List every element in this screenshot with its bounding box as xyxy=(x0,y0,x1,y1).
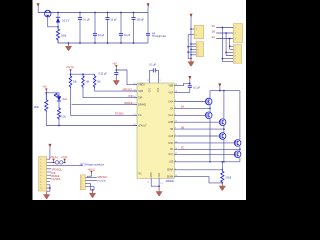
svg-text:1: 1 xyxy=(196,29,197,31)
op-amp U1 motor driver IC body xyxy=(137,83,174,178)
svg-text:2: 2 xyxy=(40,162,41,164)
svg-text:1M: 1M xyxy=(97,81,100,84)
wire J5 pin8 stub xyxy=(47,181,50,183)
ground VREG cap xyxy=(113,77,120,85)
wire VBB pin to flag xyxy=(178,83,190,85)
left black matte bar xyxy=(0,0,33,200)
svg-text:24: 24 xyxy=(133,96,135,98)
svg-text:0.22 µF: 0.22 µF xyxy=(99,73,108,76)
svg-text:JST SH-type connector: JST SH-type connector xyxy=(79,163,104,166)
wire SENN to sense resistor bottom xyxy=(178,177,223,183)
svg-text:+3.3V: +3.3V xyxy=(61,156,68,159)
power flag VIN right of cap bank xyxy=(147,3,150,6)
wire J5 pin2 to jumper pads xyxy=(47,161,65,163)
pin BRAKE stub xyxy=(134,104,137,106)
transistor Q4 phase B high xyxy=(219,119,226,126)
svg-text:5: 5 xyxy=(235,59,236,61)
svg-text:8: 8 xyxy=(175,160,176,162)
connector J6 JST 4-pin xyxy=(80,175,85,190)
svg-text:SA: SA xyxy=(212,36,216,39)
wire BRAKE net xyxy=(72,104,137,106)
svg-text:SPD/SCL: SPD/SCL xyxy=(97,176,108,179)
svg-text:FG/SDA: FG/SDA xyxy=(51,178,60,181)
pin FG stub xyxy=(134,114,137,116)
ground IC xyxy=(156,188,163,196)
pin LSS stub xyxy=(174,161,177,163)
wire J3 pin2 xyxy=(188,35,194,59)
transistor Q1 reverse-protection MOSFET xyxy=(44,10,51,17)
resistor R5 100k (LED parallel) xyxy=(45,93,48,112)
pin SENP stub xyxy=(174,169,177,171)
wire J6 power to pin1 xyxy=(85,173,91,178)
svg-text:2: 2 xyxy=(160,80,161,82)
svg-text:100 µF: 100 µF xyxy=(137,18,145,21)
wire R6 to fault rail xyxy=(58,120,60,126)
svg-text:2: 2 xyxy=(81,180,82,182)
wire rail to Q2 drain xyxy=(209,91,211,109)
ground left group xyxy=(190,58,192,60)
wire SA to J1 pin3 xyxy=(216,38,233,40)
wire J6 pin3 to ground xyxy=(85,184,94,190)
transistor Q6 phase C high xyxy=(234,140,241,147)
wire J5 pin4 SPD/SCL xyxy=(47,168,51,170)
svg-text:2.2k: 2.2k xyxy=(61,115,66,118)
svg-text:12: 12 xyxy=(175,153,177,155)
svg-text:6: 6 xyxy=(235,62,236,64)
transistor Q2 phase A high xyxy=(205,98,212,105)
wire GLC to Q7 gate xyxy=(178,153,236,155)
svg-text:SENN: SENN xyxy=(167,177,174,179)
svg-text:7: 7 xyxy=(175,135,176,137)
wire SA riser to J2 pins 1-2 xyxy=(230,39,234,50)
svg-text:4: 4 xyxy=(40,169,41,171)
SECTION PLACEHOLDERS xyxy=(37,3,167,51)
svg-text:3: 3 xyxy=(40,166,41,168)
svg-text:16: 16 xyxy=(175,84,177,86)
wire SB phase B node xyxy=(178,128,224,130)
pin SC stub xyxy=(174,148,177,150)
svg-text:GLC: GLC xyxy=(168,154,173,156)
svg-text:GND: GND xyxy=(151,172,153,177)
svg-text:5: 5 xyxy=(197,55,198,57)
pin DIR stub xyxy=(134,97,137,99)
wire SA phase A node xyxy=(178,107,210,109)
wire GHB to Q4 gate xyxy=(178,121,220,123)
resistor R2 10k pullup xyxy=(69,74,72,88)
svg-text:14: 14 xyxy=(175,141,177,143)
wire GHA to Q2 gate xyxy=(178,101,206,103)
wire J3 pin1 xyxy=(191,28,194,30)
wire rail to Q4 drain xyxy=(223,91,225,130)
svg-text:FG/SDA: FG/SDA xyxy=(115,113,124,116)
pin GHC stub xyxy=(174,142,177,144)
svg-text:FG: FG xyxy=(138,115,141,117)
svg-text:1M: 1M xyxy=(86,81,89,84)
svg-text:15: 15 xyxy=(133,83,135,85)
svg-text:10: 10 xyxy=(40,188,42,190)
pin GND bottom stub xyxy=(151,178,159,186)
connector J4 aux 5-pin xyxy=(196,42,203,57)
svg-text:4: 4 xyxy=(175,114,176,116)
wire VIN flag to FET xyxy=(38,7,44,13)
svg-text:CP1: CP1 xyxy=(149,87,151,92)
svg-text:SB: SB xyxy=(170,129,174,131)
connector J5 logic 10-pin xyxy=(39,157,47,192)
svg-text:25: 25 xyxy=(133,90,135,92)
svg-text:2: 2 xyxy=(196,35,197,37)
wire J5 pins 9-10 to ground xyxy=(47,185,50,191)
svg-text:3: 3 xyxy=(235,52,236,54)
ground sense resistor xyxy=(219,183,226,191)
power flag VIN top-left xyxy=(37,3,40,6)
node zener/gate junction xyxy=(57,26,59,28)
power flag +5V VREG xyxy=(112,62,117,67)
wire GLA to Q3 gate xyxy=(178,114,206,116)
svg-text:DIR: DIR xyxy=(138,98,142,100)
wire DIR net xyxy=(83,88,137,98)
power flag +5V J6 xyxy=(87,168,95,173)
right black matte bar xyxy=(246,0,280,200)
wire SC phase C node xyxy=(178,148,240,150)
svg-text:GHB: GHB xyxy=(168,122,173,124)
power flag VIN at VBB xyxy=(188,76,191,79)
svg-text:SB: SB xyxy=(212,31,216,34)
svg-text:PAD: PAD xyxy=(158,173,161,178)
wire VREG node xyxy=(116,67,137,85)
svg-text:3: 3 xyxy=(81,183,82,185)
wire J6 pin2 SPD/SCL xyxy=(85,180,97,182)
capacitor C4 10 uF xyxy=(119,13,123,44)
svg-text:6: 6 xyxy=(40,175,41,177)
wire SENP to sense resistor xyxy=(178,169,223,171)
svg-text:1: 1 xyxy=(175,168,176,170)
pin SA stub xyxy=(174,107,177,109)
wire phase A node to Q3 drain and source down xyxy=(209,108,211,161)
svg-text:SA: SA xyxy=(170,107,174,110)
resistor R4 1M pullup xyxy=(93,74,96,88)
svg-text:BRAKE: BRAKE xyxy=(138,104,146,107)
svg-text:SENP: SENP xyxy=(167,170,174,172)
svg-text:11: 11 xyxy=(147,182,149,184)
svg-text:SPD: SPD xyxy=(138,91,143,93)
capacitor C7 0.22 uF xyxy=(114,70,118,78)
svg-text:23: 23 xyxy=(160,183,162,185)
svg-text:VBB: VBB xyxy=(169,86,174,88)
capacitor C2 10 uF xyxy=(93,13,97,44)
svg-text:1: 1 xyxy=(235,46,236,48)
svg-text:BRAKE: BRAKE xyxy=(124,102,133,105)
svg-text:NC: NC xyxy=(138,174,142,176)
svg-text:VCP: VCP xyxy=(168,92,173,94)
svg-text:GHC: GHC xyxy=(168,143,173,145)
svg-text:FG/SDA: FG/SDA xyxy=(97,179,106,182)
svg-text:+5V (L): +5V (L) xyxy=(50,156,58,159)
svg-text:5: 5 xyxy=(40,172,41,174)
svg-text:Through hole: Through hole xyxy=(152,35,167,38)
pin GHA stub xyxy=(174,101,177,103)
wire GHC to Q6 gate xyxy=(178,142,236,144)
svg-text:1: 1 xyxy=(197,44,198,46)
node jumper pad A xyxy=(55,161,59,165)
svg-text:16.2 V: 16.2 V xyxy=(62,19,69,22)
svg-text:100k: 100k xyxy=(34,106,40,109)
svg-text:1: 1 xyxy=(40,159,41,161)
svg-text:21: 21 xyxy=(133,114,135,116)
wire J6 pin1 label row xyxy=(88,176,97,178)
svg-text:LSS: LSS xyxy=(169,162,174,164)
connector J1 motor 3-pin xyxy=(233,24,242,43)
svg-text:18: 18 xyxy=(175,91,177,93)
svg-text:0.1 µF: 0.1 µF xyxy=(193,86,200,89)
svg-text:2: 2 xyxy=(235,33,236,35)
wire bottom rail xyxy=(58,42,148,44)
pin CP1 top stub xyxy=(150,70,153,83)
LED D2 red xyxy=(54,94,61,102)
svg-text:7: 7 xyxy=(40,178,41,180)
svg-text:xFAULT: xFAULT xyxy=(138,124,147,127)
power flag VIN J5 xyxy=(48,144,51,147)
wire LSS rail xyxy=(178,161,240,163)
power flag +5V LED xyxy=(42,86,47,91)
svg-text:10k: 10k xyxy=(73,81,78,84)
capacitor C8 0.1 uF charge pump xyxy=(153,68,155,72)
svg-text:4: 4 xyxy=(197,52,198,54)
svg-text:17: 17 xyxy=(147,80,149,82)
svg-text:19: 19 xyxy=(133,103,135,105)
capacitor C9 0.1 uF VBB-VCP xyxy=(189,83,191,92)
pin VCP stub xyxy=(174,91,177,93)
svg-text:A89306: A89306 xyxy=(166,180,175,183)
svg-text:0.005: 0.005 xyxy=(225,176,232,179)
wire J6 pin4 to ground xyxy=(85,187,94,190)
svg-text:GHA: GHA xyxy=(168,100,173,103)
pin xFAULT stub xyxy=(134,125,137,127)
zener diode D1 16.2V xyxy=(56,13,60,27)
power flag VIN bridge xyxy=(218,83,221,86)
svg-text:VREG: VREG xyxy=(138,85,145,87)
ground J6 xyxy=(89,190,96,198)
wire J5 pin5 DIR xyxy=(47,171,51,173)
svg-text:+5V: +5V xyxy=(112,62,117,65)
wire SB to J1 pin2 xyxy=(216,32,233,34)
svg-text:3: 3 xyxy=(197,49,198,51)
svg-text:13: 13 xyxy=(175,148,177,150)
transistor Q3 phase A low xyxy=(205,112,212,119)
wire phase C node to Q7 and source down xyxy=(239,149,241,162)
wire rail to Q6 drain xyxy=(239,91,241,150)
svg-text:10 µF: 10 µF xyxy=(124,34,131,37)
svg-text:4: 4 xyxy=(81,187,82,189)
pin SENN stub xyxy=(174,176,177,178)
capacitor C5 100 uF xyxy=(131,13,135,44)
wire SC riser to J2 pins 5-6 xyxy=(222,28,233,62)
svg-text:SC: SC xyxy=(212,25,216,28)
svg-text:10: 10 xyxy=(175,121,177,123)
ground main rail xyxy=(65,43,72,51)
svg-text:Red: Red xyxy=(63,98,68,101)
pin SPD stub xyxy=(134,90,137,92)
svg-text:2: 2 xyxy=(197,47,198,49)
wire below R5 xyxy=(46,112,137,126)
svg-text:CP2: CP2 xyxy=(158,87,160,92)
svg-text:22: 22 xyxy=(133,124,135,126)
wire GLB to Q5 gate xyxy=(178,135,220,137)
pin GLC stub xyxy=(174,153,177,155)
svg-text:GLA: GLA xyxy=(169,114,174,117)
svg-text:DIR: DIR xyxy=(128,95,132,98)
wire SC to J1 pin1 xyxy=(216,27,233,29)
svg-text:0.1 µF: 0.1 µF xyxy=(83,18,90,21)
svg-text:8: 8 xyxy=(40,182,41,184)
wire top rail VIN xyxy=(51,12,148,14)
svg-text:1: 1 xyxy=(235,27,236,29)
pin GLB stub xyxy=(174,135,177,137)
pin VREG stub xyxy=(134,84,137,86)
wire J5 pin7 FG/SDA xyxy=(47,177,51,179)
svg-text:9: 9 xyxy=(175,128,176,130)
connector J2 sense 6-pin xyxy=(233,45,241,64)
svg-text:4: 4 xyxy=(235,56,236,58)
svg-text:+5V (L): +5V (L) xyxy=(66,66,74,69)
power flag +5V pullup rail xyxy=(66,66,74,72)
node jumper pad B xyxy=(59,161,63,165)
connector J3 power 2-pin xyxy=(194,25,203,39)
transistor Q5 phase B low xyxy=(219,133,226,140)
svg-text:0.1 µF: 0.1 µF xyxy=(149,64,156,67)
capacitor C6 NF through hole xyxy=(146,7,150,44)
wire VCP pin to cap xyxy=(178,91,190,93)
wire Q1 gate down to zener node xyxy=(48,17,58,27)
svg-text:6: 6 xyxy=(175,100,176,102)
svg-text:2: 2 xyxy=(235,49,236,51)
svg-text:24: 24 xyxy=(175,175,177,177)
wire FG/SDA net xyxy=(71,88,138,115)
capacitor C3 10 uF xyxy=(105,13,109,44)
pin VBB stub xyxy=(174,85,177,87)
resistor R1 100k xyxy=(56,27,59,43)
power flag VIN left group xyxy=(190,14,193,17)
pin GLA stub xyxy=(174,114,177,116)
wire SPD/SCL net xyxy=(95,88,137,91)
resistor R3 1M pullup xyxy=(82,74,85,88)
resistor R7 sense 0.005 xyxy=(221,162,223,171)
svg-text:SC: SC xyxy=(170,149,174,151)
svg-text:1: 1 xyxy=(81,177,82,179)
transistor Q7 phase C low xyxy=(234,151,241,158)
wire LED to R6 xyxy=(58,101,60,107)
wire J5 pin3 +5V logic out xyxy=(47,165,83,167)
pin GHB stub xyxy=(174,121,177,123)
svg-text:100k: 100k xyxy=(61,34,67,37)
wire SB riser to J2 pins 3-4 xyxy=(226,33,233,56)
pin CP2 top stub xyxy=(156,70,159,83)
wire bridge VBB top rail xyxy=(210,90,240,92)
ground J5 xyxy=(43,191,50,199)
wire 5V pullup rail xyxy=(71,71,95,74)
svg-text:10 µF: 10 µF xyxy=(98,34,105,37)
svg-text:5: 5 xyxy=(175,107,176,109)
capacitor C1 0.1 uF xyxy=(78,13,82,44)
pin SB stub xyxy=(174,128,177,130)
svg-text:GLB: GLB xyxy=(169,136,174,138)
svg-text:10 µF: 10 µF xyxy=(111,18,118,21)
wire J5 pin1 to power xyxy=(47,147,50,159)
svg-text:+5V: +5V xyxy=(42,86,47,89)
svg-text:9: 9 xyxy=(40,185,41,187)
wire J4 pins to verticals xyxy=(188,44,196,55)
pin PAD bottom stub xyxy=(158,178,160,188)
resistor R6 2.2k xyxy=(57,107,60,120)
svg-text:SPD/SCL: SPD/SCL xyxy=(122,88,133,91)
wire phase B node to Q5 and source down xyxy=(223,129,225,162)
wire J5 pin6 BRAKE xyxy=(47,174,51,176)
wire LED branch top xyxy=(46,91,59,97)
svg-text:3: 3 xyxy=(235,38,236,40)
wire left group power vertical xyxy=(190,17,192,59)
